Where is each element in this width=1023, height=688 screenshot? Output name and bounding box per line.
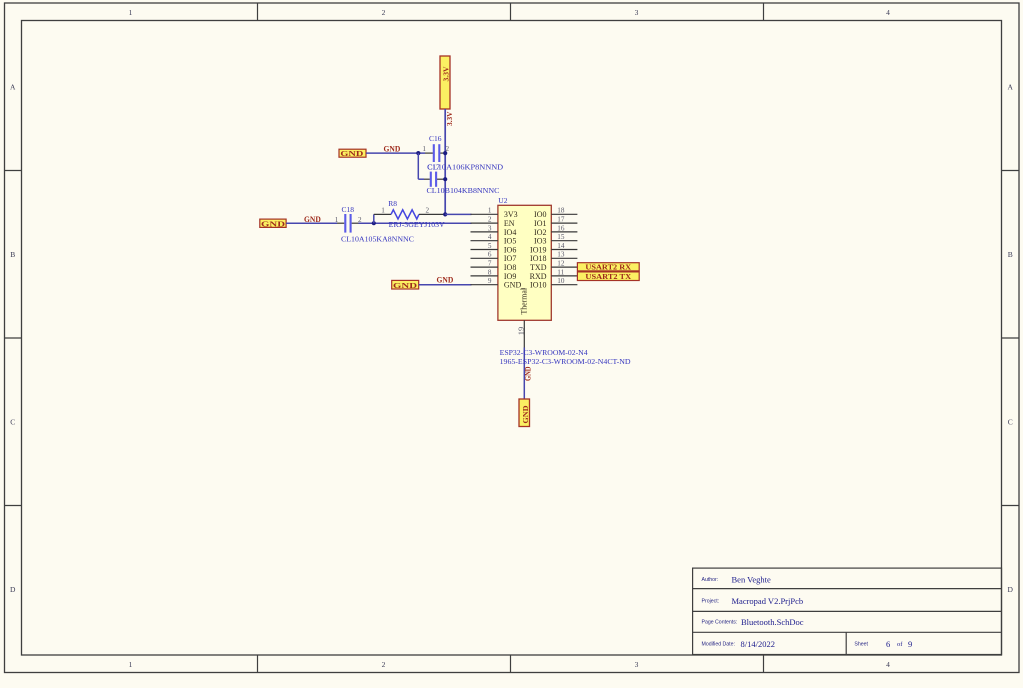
svg-text:GND: GND [524,366,533,381]
svg-text:D: D [10,585,16,594]
svg-text:15: 15 [557,233,565,241]
pin 11 [551,268,577,276]
svg-text:USART2 RX: USART2 RX [585,264,632,272]
svg-text:R8: R8 [388,199,397,208]
svg-text:16: 16 [557,224,565,232]
port USART2 RX [577,263,639,272]
svg-text:14: 14 [557,242,565,250]
pin 3 [471,224,498,232]
svg-text:Project:: Project: [702,599,720,605]
pin 12 [551,260,577,268]
pin 16 [551,224,577,232]
pin 13 [551,251,577,259]
svg-text:C18: C18 [342,205,355,214]
svg-text:IO18: IO18 [530,254,546,263]
svg-text:11: 11 [557,268,564,276]
svg-text:Thermal: Thermal [520,287,529,314]
wire to C17 [418,153,424,179]
svg-text:IO7: IO7 [504,254,516,263]
svg-text:9: 9 [488,277,492,285]
port GND (left) [260,219,286,228]
svg-text:Author:: Author: [702,577,719,583]
svg-text:GND: GND [340,149,364,158]
svg-text:10: 10 [557,277,565,285]
svg-text:4: 4 [488,233,492,241]
port USART2 TX [577,272,639,281]
svg-text:IO2: IO2 [534,228,546,237]
pin 17 [551,216,577,224]
svg-text:1: 1 [129,8,133,17]
wire C18 to EN pin [359,222,472,224]
svg-text:3: 3 [635,660,639,669]
svg-text:C: C [1008,417,1013,426]
capacitor C17 [424,162,500,194]
svg-text:C16: C16 [429,134,442,143]
svg-text:2: 2 [488,216,492,224]
capacitor C16 [422,134,503,172]
component U2 ESP32-C3-WROOM-02 [498,196,551,320]
svg-text:CL10B104KB8NNNC: CL10B104KB8NNNC [427,186,500,195]
svg-text:19: 19 [517,326,525,335]
svg-text:EN: EN [504,219,515,228]
svg-text:1: 1 [381,207,385,215]
svg-text:D: D [1007,585,1013,594]
svg-text:1: 1 [335,216,339,224]
svg-text:1: 1 [422,145,426,153]
svg-text:C: C [10,417,15,426]
svg-text:GND: GND [384,145,401,154]
pin 9 [471,277,498,285]
value label ESP32-C3-WROOM-02-N4 [500,348,588,357]
svg-text:GND: GND [521,405,530,424]
svg-text:1965-ESP32-C3-WROOM-02-N4CT-ND: 1965-ESP32-C3-WROOM-02-N4CT-ND [500,357,632,366]
svg-text:9: 9 [908,639,912,649]
junction [443,151,447,155]
net label GND [437,276,454,285]
wire to 3V3 pin [445,213,471,215]
svg-text:Macropad V2.PrjPcb: Macropad V2.PrjPcb [732,596,804,606]
svg-text:A: A [10,82,16,91]
net label 3.3V [445,111,454,126]
wire pin19 to GND [523,348,525,400]
pin 4 [471,233,498,241]
junction [443,212,447,216]
svg-text:ESP32-C3-WROOM-02-N4: ESP32-C3-WROOM-02-N4 [500,348,588,357]
svg-text:8: 8 [488,268,492,276]
svg-text:7: 7 [488,260,492,268]
svg-text:USART2 TX: USART2 TX [585,273,632,281]
net label GND [304,215,321,224]
value label 1965-ESP32-C3-WROOM-02-N4CT-ND [500,357,632,366]
pin 10 [551,277,577,285]
svg-text:1: 1 [488,207,492,215]
pin 1 [471,207,498,215]
pin 14 [551,242,577,250]
svg-text:B: B [10,250,15,259]
pin 18 [551,207,577,215]
svg-text:IO1: IO1 [534,219,546,228]
junction [443,177,447,181]
svg-text:B: B [1008,250,1013,259]
svg-text:TXD: TXD [530,263,547,272]
pin 19 [517,320,525,347]
port GND (top) [339,149,366,158]
wire 3.3V vertical [444,109,446,214]
svg-text:Modified Date:: Modified Date: [702,642,735,648]
pin 2 [471,216,498,224]
junction [416,151,420,155]
wire GND to pin 9 [419,284,472,286]
svg-text:Ben Veghte: Ben Veghte [732,575,771,585]
svg-text:IO0: IO0 [534,210,546,219]
svg-text:17: 17 [557,216,565,224]
port GND (bottom) [519,399,530,427]
svg-text:ERJ-3GEYJ103V: ERJ-3GEYJ103V [389,220,446,229]
svg-text:Page Contents:: Page Contents: [702,620,738,626]
svg-text:IO19: IO19 [530,245,546,254]
svg-text:4: 4 [886,660,890,669]
capacitor C18 [335,205,414,244]
pin 5 [471,242,498,250]
svg-text:IO3: IO3 [534,237,546,246]
svg-text:RXD: RXD [530,272,547,281]
pin 6 [471,251,498,259]
svg-text:13: 13 [557,251,565,259]
svg-text:GND: GND [393,281,418,290]
svg-text:1: 1 [129,660,133,669]
wire junction up to R8 [373,214,375,223]
svg-text:18: 18 [557,207,565,215]
svg-text:8/14/2022: 8/14/2022 [741,639,775,649]
svg-text:2: 2 [382,8,386,17]
svg-text:IO8: IO8 [504,263,516,272]
svg-text:U2: U2 [498,196,507,205]
resistor R8 [374,199,446,229]
svg-text:GND: GND [437,276,454,285]
wire GND to C18 [286,222,337,224]
junction [372,221,376,225]
svg-text:of: of [897,641,903,648]
pin 8 [471,268,498,276]
svg-text:Sheet: Sheet [854,642,868,648]
svg-text:IO10: IO10 [530,281,546,290]
svg-text:GND: GND [261,219,286,228]
svg-text:6: 6 [488,251,492,259]
svg-text:6: 6 [886,639,890,649]
svg-text:12: 12 [557,260,565,268]
port GND (pin9) [392,280,419,289]
svg-text:3.3V: 3.3V [442,66,451,82]
svg-text:3V3: 3V3 [504,210,518,219]
svg-text:IO4: IO4 [504,228,516,237]
svg-text:IO9: IO9 [504,272,516,281]
svg-text:4: 4 [886,8,890,17]
svg-text:2: 2 [426,207,430,215]
svg-text:IO5: IO5 [504,237,516,246]
net label GND (rotated) [524,366,533,381]
pin 7 [471,260,498,268]
svg-text:3: 3 [488,224,492,232]
svg-text:IO6: IO6 [504,245,516,254]
svg-text:A: A [1007,82,1013,91]
svg-text:3: 3 [635,8,639,17]
svg-text:C17: C17 [427,162,440,171]
svg-text:Bluetooth.SchDoc: Bluetooth.SchDoc [741,617,804,627]
svg-text:2: 2 [382,660,386,669]
wire GND to C16 [366,152,425,154]
pin 15 [551,233,577,241]
power port 3.3V [440,56,451,109]
net label GND [384,145,401,154]
svg-text:CL10A105KA8NNNC: CL10A105KA8NNNC [341,235,414,244]
svg-text:3.3V: 3.3V [445,111,454,126]
svg-text:5: 5 [488,242,492,250]
